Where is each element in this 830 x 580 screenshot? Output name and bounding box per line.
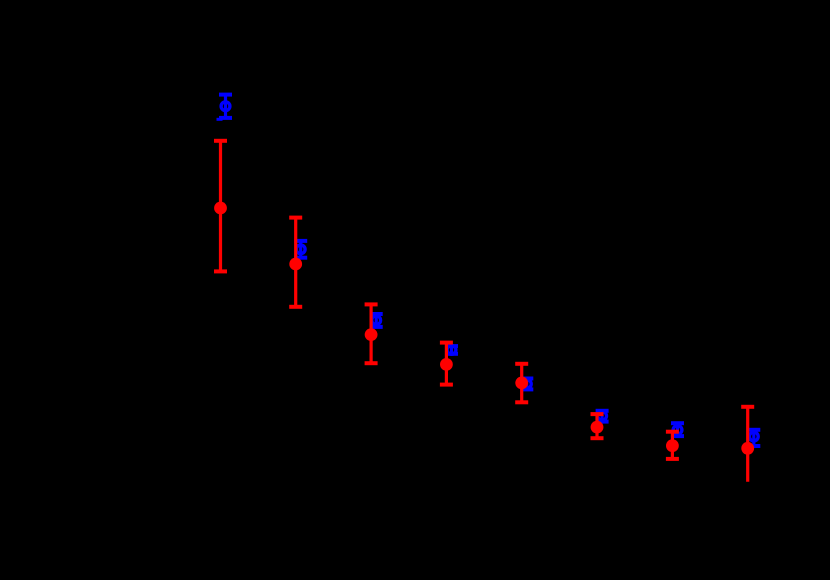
- red error bar point 2: [289, 218, 302, 307]
- blue open circle marker 4: [447, 346, 456, 355]
- red filled circle marker 5: [515, 377, 528, 390]
- red error bar point 7: [666, 432, 679, 459]
- red error bar point 1: [214, 141, 227, 272]
- red filled circle marker 2: [289, 258, 302, 271]
- blue open circle marker 2: [296, 245, 305, 254]
- red error bar point 3: [365, 304, 378, 363]
- blue open circle marker 3: [372, 316, 381, 325]
- blue error bar point 6: [596, 411, 609, 422]
- blue open circle marker 8: [749, 432, 758, 441]
- blue error bar point 1: [217, 95, 233, 120]
- blue open circle marker 5: [522, 380, 531, 389]
- blue error bar point 4: [445, 346, 458, 354]
- red filled circle marker 6: [591, 421, 604, 434]
- blue open circle marker 7: [673, 426, 682, 435]
- red error bar point 5: [515, 364, 528, 403]
- blue error bar point 2: [294, 241, 307, 258]
- blue open circle marker 1: [221, 102, 230, 111]
- blue error bar point 8: [747, 430, 760, 446]
- red filled circle marker 1: [214, 202, 227, 215]
- red filled circle marker 7: [666, 439, 679, 452]
- red error bar point 8 (lower bar clipped, no bottom cap): [741, 407, 754, 482]
- blue open circle marker 6: [598, 412, 607, 421]
- blue error bar point 5: [520, 379, 533, 390]
- blue error bar point 3: [370, 314, 383, 327]
- blue error bar point 7: [671, 423, 684, 436]
- red filled circle marker 8: [741, 442, 754, 455]
- red filled circle marker 4: [440, 358, 453, 371]
- red error bar point 4: [440, 343, 453, 385]
- red filled circle marker 3: [365, 328, 378, 341]
- red error bar point 6: [591, 414, 604, 438]
